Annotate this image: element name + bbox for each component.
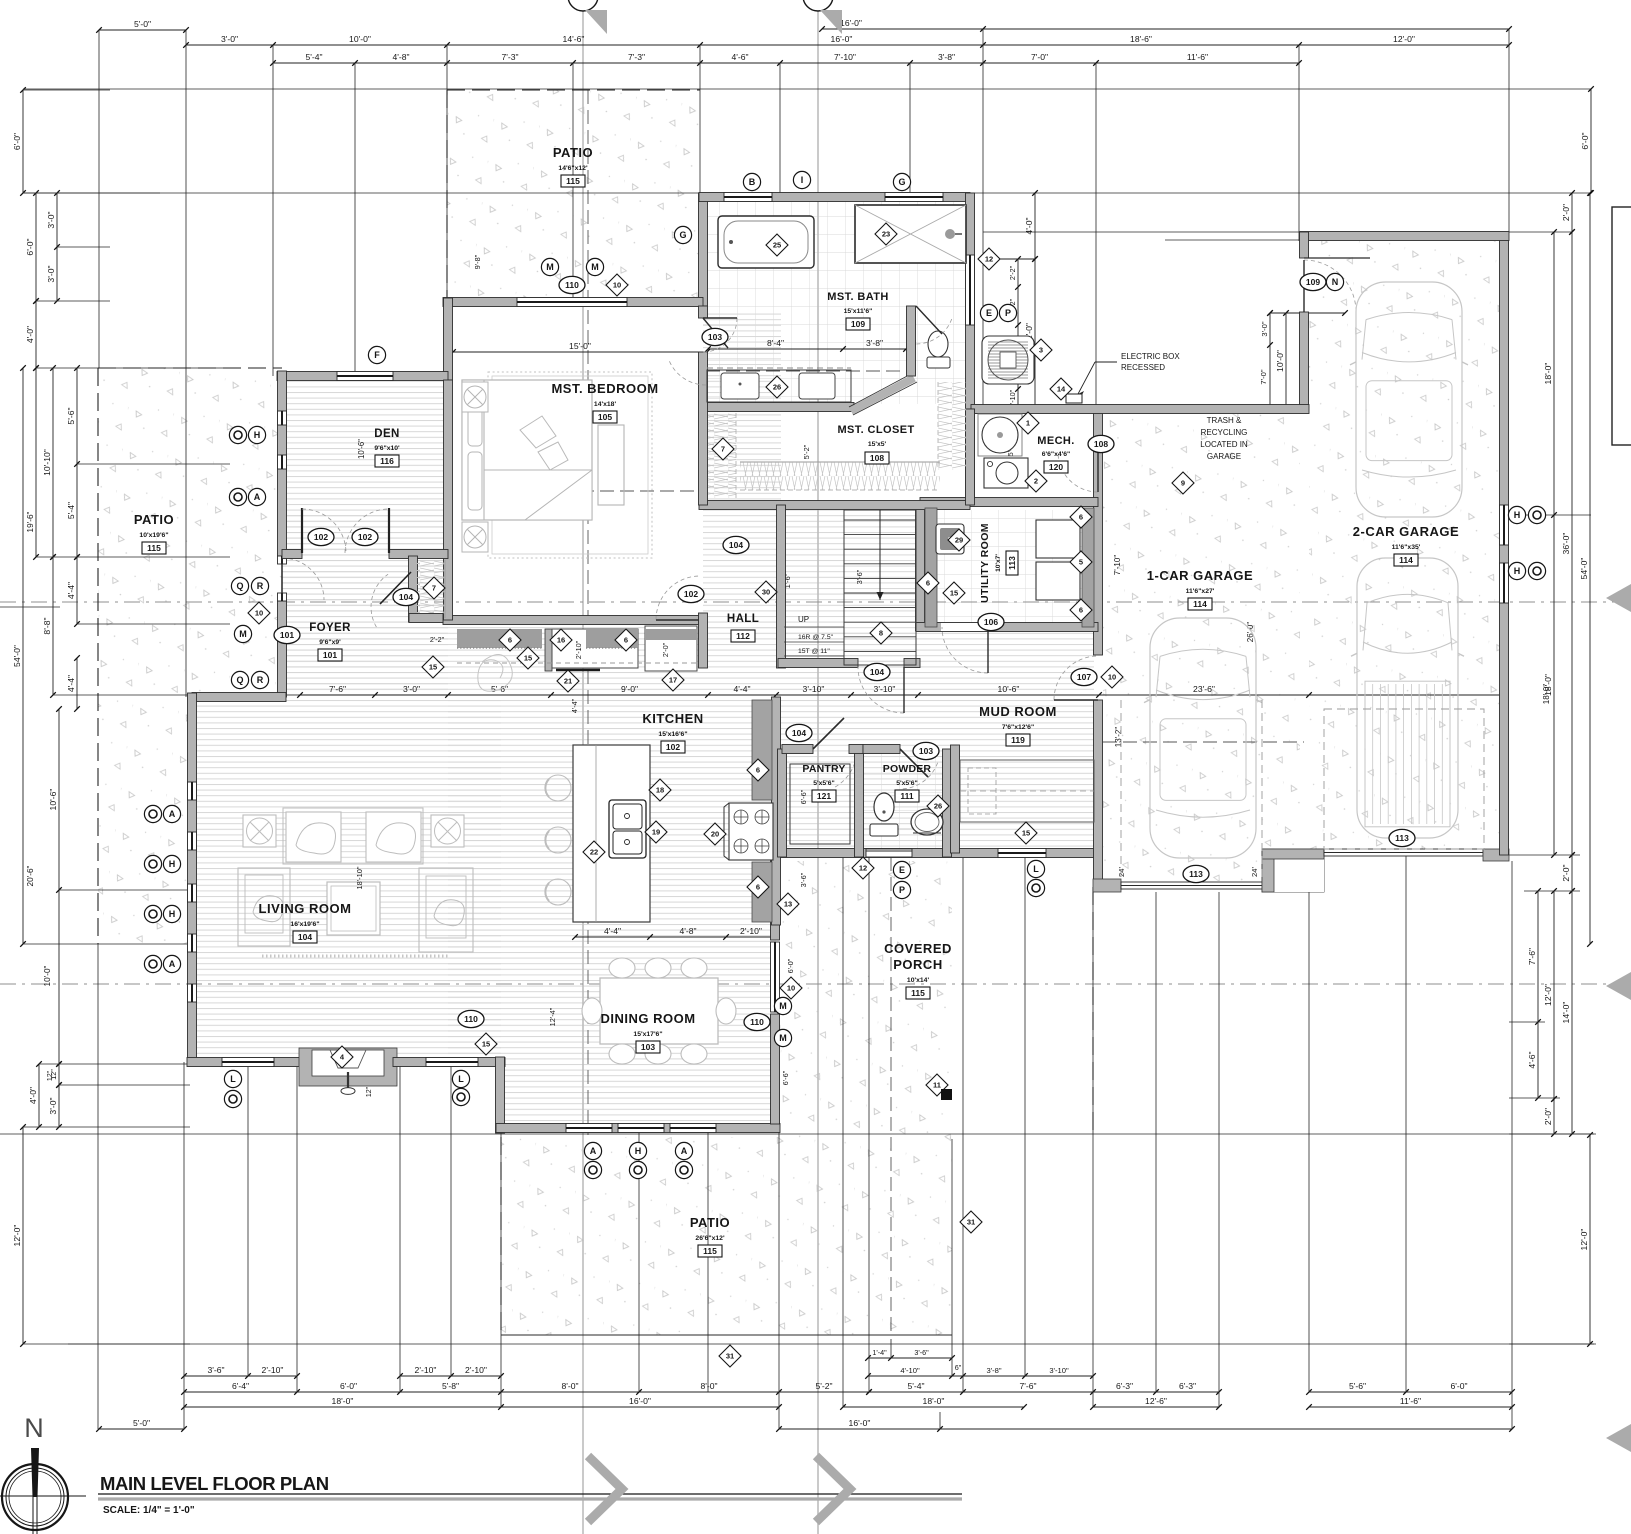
svg-text:26: 26 <box>773 383 781 392</box>
svg-text:A: A <box>254 492 261 502</box>
wall: bedroom south / kitchen north <box>443 616 703 625</box>
svg-text:104: 104 <box>399 592 413 602</box>
svg-text:3'-0": 3'-0" <box>48 1097 58 1114</box>
svg-text:11'6"x35': 11'6"x35' <box>1392 544 1421 551</box>
den floor <box>282 376 448 697</box>
garage 2 stipple <box>1309 241 1504 849</box>
svg-text:15: 15 <box>524 654 532 663</box>
svg-text:PATIO: PATIO <box>553 145 593 160</box>
bed <box>462 380 592 520</box>
svg-text:2'-10": 2'-10" <box>465 1365 487 1375</box>
grid bubbles top <box>568 0 598 11</box>
svg-text:M: M <box>779 1033 787 1043</box>
svg-text:6: 6 <box>926 579 930 588</box>
svg-text:4'-0": 4'-0" <box>28 1087 38 1104</box>
svg-text:2'-10": 2'-10" <box>262 1365 284 1375</box>
svg-text:A: A <box>681 1146 688 1156</box>
svg-text:4'-4": 4'-4" <box>66 675 76 692</box>
dashed centerline bedroom <box>500 490 707 492</box>
foyer plant scribble <box>478 654 512 691</box>
svg-text:8'-4": 8'-4" <box>767 338 784 348</box>
svg-text:G: G <box>679 230 686 240</box>
mech furnace <box>984 458 1028 488</box>
svg-text:GARAGE: GARAGE <box>1207 452 1241 461</box>
svg-text:3'-8": 3'-8" <box>938 52 955 62</box>
svg-text:H: H <box>1514 510 1521 520</box>
svg-text:102: 102 <box>314 532 328 542</box>
svg-text:14'-6": 14'-6" <box>563 34 585 44</box>
bottom extension lines <box>97 944 99 1429</box>
svg-text:14'6"x12': 14'6"x12' <box>558 165 588 172</box>
svg-text:15'x17'6": 15'x17'6" <box>633 1031 662 1038</box>
svg-text:104: 104 <box>792 728 806 738</box>
svg-text:F: F <box>374 350 380 360</box>
svg-text:2'-0": 2'-0" <box>1543 1108 1553 1125</box>
wall: dining south <box>496 1124 780 1133</box>
interior dim row y695 <box>300 694 1504 696</box>
right edge arrows <box>1606 584 1631 612</box>
svg-text:5'-4": 5'-4" <box>66 502 76 519</box>
living-dining strip <box>448 625 776 1062</box>
courtyard dims <box>1034 193 1036 409</box>
svg-text:6'-0": 6'-0" <box>1450 1381 1467 1391</box>
svg-text:7'-0": 7'-0" <box>1259 369 1268 384</box>
svg-text:6'-4": 6'-4" <box>232 1381 249 1391</box>
patio top stipple <box>447 90 700 297</box>
svg-text:3: 3 <box>1039 346 1043 355</box>
garage 1 stipple <box>1103 413 1300 881</box>
svg-text:10'x19'6": 10'x19'6" <box>139 532 168 539</box>
svg-text:5'-4": 5'-4" <box>305 52 322 62</box>
left extension lines <box>23 89 110 91</box>
svg-text:P: P <box>1005 308 1011 318</box>
shower <box>855 205 966 263</box>
svg-text:15: 15 <box>429 663 437 672</box>
mst bath tile <box>703 202 966 404</box>
svg-text:2'-10": 2'-10" <box>574 640 583 659</box>
wall: pantry west <box>778 749 787 857</box>
car garage1 suv <box>1150 618 1256 858</box>
svg-text:15T @ 11": 15T @ 11" <box>798 648 830 655</box>
wall: mst bath north <box>699 193 970 202</box>
svg-text:PORCH: PORCH <box>893 957 942 972</box>
svg-text:9'6"x9': 9'6"x9' <box>319 639 341 646</box>
svg-text:115: 115 <box>147 543 161 553</box>
svg-text:A: A <box>169 959 176 969</box>
wall: foyer jog <box>192 693 286 702</box>
svg-text:9: 9 <box>1181 479 1185 488</box>
svg-text:1-CAR GARAGE: 1-CAR GARAGE <box>1147 568 1253 583</box>
svg-text:16'x19'6": 16'x19'6" <box>290 921 319 928</box>
svg-text:26'-0": 26'-0" <box>1246 622 1255 643</box>
end tables <box>243 815 276 847</box>
mud hall floor <box>776 631 1094 853</box>
svg-text:RECYCLING: RECYCLING <box>1201 428 1248 437</box>
svg-text:P: P <box>899 885 905 895</box>
svg-text:LIVING ROOM: LIVING ROOM <box>259 901 352 916</box>
double window circles left <box>144 805 161 822</box>
svg-text:16'-0": 16'-0" <box>840 18 862 28</box>
mid chair left <box>238 868 290 946</box>
svg-text:19: 19 <box>652 828 660 837</box>
garage jamb dashed <box>1120 700 1122 880</box>
svg-text:114: 114 <box>1399 555 1413 565</box>
wall: garage west <box>1094 409 1103 655</box>
svg-text:121: 121 <box>817 791 831 801</box>
svg-text:26: 26 <box>934 802 942 811</box>
den south wall + double doors <box>282 550 302 559</box>
svg-text:H: H <box>169 859 176 869</box>
closet racks <box>708 413 736 498</box>
svg-text:6'-0": 6'-0" <box>340 1381 357 1391</box>
svg-text:7'-6": 7'-6" <box>1527 948 1537 965</box>
svg-text:4'-0": 4'-0" <box>1024 217 1034 234</box>
svg-text:108: 108 <box>870 453 884 463</box>
wall: den south <box>444 380 453 620</box>
svg-text:101: 101 <box>280 630 294 640</box>
svg-text:115: 115 <box>911 988 925 998</box>
svg-text:MST. BATH: MST. BATH <box>827 291 888 303</box>
svg-text:I: I <box>801 175 804 185</box>
wall: bedroom north <box>443 298 703 307</box>
svg-text:3'-6": 3'-6" <box>914 1348 929 1357</box>
island sink <box>609 800 646 858</box>
nightstands <box>462 382 488 412</box>
svg-text:4'-4": 4'-4" <box>570 698 579 713</box>
wall: bath/closet east <box>966 409 975 505</box>
svg-text:16'-0": 16'-0" <box>849 1418 871 1428</box>
dashed centerline bath <box>706 370 900 372</box>
svg-text:119: 119 <box>1011 735 1025 745</box>
kitchen bottom dim row <box>575 936 776 938</box>
svg-text:6'-0": 6'-0" <box>786 958 795 973</box>
wall: utility south <box>916 623 1098 632</box>
svg-text:114: 114 <box>1193 599 1207 609</box>
svg-text:M: M <box>239 629 247 639</box>
svg-text:8'-0": 8'-0" <box>700 1381 717 1391</box>
svg-text:2: 2 <box>1034 477 1038 486</box>
svg-text:E: E <box>986 308 992 318</box>
patio bottom circle pairs <box>584 1142 601 1159</box>
svg-text:25: 25 <box>773 241 781 250</box>
svg-text:MAIN LEVEL FLOOR PLAN: MAIN LEVEL FLOOR PLAN <box>100 1473 329 1494</box>
wall: bedroom east <box>699 306 708 318</box>
wall: kitchen fridge side <box>699 613 708 668</box>
svg-text:6: 6 <box>1079 513 1083 522</box>
wall: mech west <box>966 409 975 502</box>
svg-text:8'-8": 8'-8" <box>42 617 52 634</box>
wall: living south <box>187 1058 303 1067</box>
svg-text:6: 6 <box>624 636 628 645</box>
svg-text:PATIO: PATIO <box>690 1215 730 1230</box>
svg-text:109: 109 <box>1306 277 1320 287</box>
svg-text:104: 104 <box>298 932 312 942</box>
porch door <box>866 849 912 857</box>
svg-text:109: 109 <box>851 319 865 329</box>
svg-text:10: 10 <box>613 281 621 290</box>
wall: pantry/powder divider <box>855 749 864 857</box>
svg-text:22: 22 <box>590 848 598 857</box>
svg-text:23: 23 <box>882 230 890 239</box>
svg-text:ELECTRIC BOX: ELECTRIC BOX <box>1121 352 1180 361</box>
svg-text:15: 15 <box>482 1040 490 1049</box>
wall: mst bath west <box>699 193 708 306</box>
centerline horizontal lower <box>0 983 1631 985</box>
tub <box>718 216 814 268</box>
svg-text:12": 12" <box>366 1086 373 1097</box>
vanity counter <box>707 370 851 402</box>
svg-text:115: 115 <box>703 1246 717 1256</box>
svg-text:3'-0": 3'-0" <box>403 684 420 694</box>
svg-text:10'-0": 10'-0" <box>349 34 371 44</box>
front door opening <box>278 601 287 697</box>
svg-text:7'6"x12'6": 7'6"x12'6" <box>1002 724 1034 731</box>
range <box>729 803 773 860</box>
svg-text:115: 115 <box>566 176 580 186</box>
svg-text:6: 6 <box>756 766 760 775</box>
svg-text:FOYER: FOYER <box>309 622 351 634</box>
svg-text:DINING ROOM: DINING ROOM <box>600 1011 695 1026</box>
svg-text:6: 6 <box>1079 606 1083 615</box>
svg-text:E: E <box>899 865 905 875</box>
svg-text:G: G <box>898 177 905 187</box>
wall: powder north <box>863 745 900 754</box>
foyer closet <box>409 556 418 622</box>
svg-text:COVERED: COVERED <box>884 941 952 956</box>
svg-text:103: 103 <box>641 1042 655 1052</box>
svg-text:Q: Q <box>236 675 243 685</box>
svg-text:H: H <box>1514 566 1521 576</box>
wall: garage east <box>1500 232 1509 855</box>
top extension lines <box>98 30 100 368</box>
svg-text:4'-8": 4'-8" <box>679 926 696 936</box>
svg-text:4'-10": 4'-10" <box>900 1366 920 1375</box>
bench <box>598 425 624 505</box>
svg-text:11'-6": 11'-6" <box>1187 52 1208 62</box>
svg-text:5: 5 <box>1079 558 1083 567</box>
bedroom rug <box>488 372 652 558</box>
svg-text:31: 31 <box>726 1352 734 1361</box>
svg-text:3'-6": 3'-6" <box>799 872 808 887</box>
svg-text:N: N <box>24 1413 44 1443</box>
svg-text:2'-0": 2'-0" <box>661 642 670 657</box>
svg-text:6'-6": 6'-6" <box>781 1070 790 1085</box>
svg-text:15'-0": 15'-0" <box>569 341 591 351</box>
svg-text:113: 113 <box>1007 556 1017 570</box>
bath toilet <box>928 331 948 357</box>
garage door 2 <box>1324 849 1483 856</box>
svg-text:HALL: HALL <box>727 613 759 625</box>
svg-text:9'6"x10': 9'6"x10' <box>374 445 400 452</box>
svg-text:23'-6": 23'-6" <box>1193 684 1215 694</box>
svg-text:7: 7 <box>432 584 436 593</box>
north arrow <box>2 1464 68 1530</box>
svg-text:10'-6": 10'-6" <box>357 439 366 459</box>
wall: pantry north <box>782 745 813 754</box>
svg-text:3'-6": 3'-6" <box>855 569 864 584</box>
svg-text:L: L <box>230 1074 236 1084</box>
wall: den north <box>277 372 448 381</box>
svg-text:6: 6 <box>756 883 760 892</box>
svg-text:12'-0": 12'-0" <box>1393 34 1415 44</box>
svg-text:120: 120 <box>1049 462 1063 472</box>
svg-text:111: 111 <box>900 791 914 801</box>
svg-text:16'-0": 16'-0" <box>629 1396 651 1406</box>
svg-text:5'-6": 5'-6" <box>66 407 76 424</box>
svg-text:N: N <box>1332 277 1339 287</box>
svg-text:5'-4": 5'-4" <box>907 1381 924 1391</box>
svg-text:4'-4": 4'-4" <box>66 582 76 599</box>
svg-text:104: 104 <box>870 667 884 677</box>
svg-text:2'-0": 2'-0" <box>1561 864 1571 881</box>
svg-text:10'x14': 10'x14' <box>907 977 930 984</box>
covered porch stipple <box>779 861 952 1139</box>
svg-text:DEN: DEN <box>374 428 399 440</box>
truck dashed stall <box>1324 709 1484 849</box>
svg-text:8'-0": 8'-0" <box>561 1381 578 1391</box>
svg-text:102: 102 <box>666 742 680 752</box>
dashed centerline garage1 <box>1103 741 1304 743</box>
svg-text:5'-0": 5'-0" <box>134 19 151 29</box>
svg-text:104: 104 <box>729 540 743 550</box>
svg-text:29: 29 <box>955 536 963 545</box>
mech water heater <box>978 414 1022 456</box>
svg-text:10: 10 <box>1108 673 1116 682</box>
svg-text:5'-2": 5'-2" <box>815 1381 832 1391</box>
svg-text:18'-0": 18'-0" <box>1542 684 1551 705</box>
centerline horizontal upper <box>0 601 1631 603</box>
svg-text:B: B <box>749 177 756 187</box>
svg-text:4'-4": 4'-4" <box>733 684 750 694</box>
svg-text:108: 108 <box>1094 439 1108 449</box>
svg-text:107: 107 <box>1077 672 1091 682</box>
svg-text:10'-6": 10'-6" <box>48 789 58 811</box>
window letter circles <box>743 173 760 190</box>
svg-text:UP: UP <box>798 615 809 624</box>
svg-text:12'-0": 12'-0" <box>12 1225 22 1247</box>
section ref line B vertical <box>817 0 819 1534</box>
top dimension rows <box>99 29 186 31</box>
utility cabinets dark <box>1082 508 1094 627</box>
svg-text:H: H <box>254 430 261 440</box>
svg-text:26'6"x12': 26'6"x12' <box>695 1235 725 1242</box>
electric panel fixture <box>982 336 1034 384</box>
svg-text:2'-10": 2'-10" <box>415 1365 437 1375</box>
wall: bedroom west upper <box>444 298 453 380</box>
svg-text:4'-8": 4'-8" <box>392 52 409 62</box>
wall: mech south / utility north <box>920 498 1098 507</box>
svg-text:10'-10": 10'-10" <box>42 449 52 476</box>
svg-text:PATIO: PATIO <box>134 512 174 527</box>
dashed centerline porch <box>890 857 892 1335</box>
bottom section chevrons <box>588 1456 622 1522</box>
svg-text:19'-6": 19'-6" <box>26 511 35 532</box>
svg-text:12'-6": 12'-6" <box>1145 1396 1167 1406</box>
svg-text:PANTRY: PANTRY <box>802 763 845 775</box>
wall: living south east seg <box>393 1058 505 1067</box>
garage door 1 <box>1121 882 1262 889</box>
fireplace bump <box>299 1048 397 1086</box>
svg-text:POWDER: POWDER <box>883 763 932 775</box>
car garage2 truck <box>1357 558 1458 838</box>
svg-text:2'-0": 2'-0" <box>1561 204 1571 221</box>
wall: south of powder block <box>771 849 1097 858</box>
svg-text:3'-0": 3'-0" <box>1260 321 1269 336</box>
right extension lines <box>1509 854 1580 856</box>
svg-text:102: 102 <box>358 532 372 542</box>
svg-text:9'-0": 9'-0" <box>621 684 638 694</box>
svg-text:10'-0": 10'-0" <box>1275 350 1285 372</box>
svg-text:12: 12 <box>985 255 993 264</box>
svg-text:103: 103 <box>708 332 722 342</box>
svg-text:Q: Q <box>236 581 243 591</box>
mid chair right <box>419 868 473 952</box>
mud bench <box>960 760 1094 822</box>
svg-text:5'x5'6": 5'x5'6" <box>813 780 835 787</box>
svg-text:7'-3": 7'-3" <box>628 52 645 62</box>
svg-text:5'-2": 5'-2" <box>802 444 811 459</box>
toilet nook tile <box>911 306 966 402</box>
svg-text:2-CAR GARAGE: 2-CAR GARAGE <box>1353 524 1459 539</box>
svg-text:3'-10": 3'-10" <box>874 684 896 694</box>
svg-text:5'-8": 5'-8" <box>442 1381 459 1391</box>
svg-text:A: A <box>169 809 176 819</box>
svg-text:6'6"x4'6": 6'6"x4'6" <box>1042 451 1071 458</box>
svg-text:13'-2": 13'-2" <box>1114 727 1123 748</box>
svg-text:MUD ROOM: MUD ROOM <box>979 704 1057 719</box>
pillows deco <box>520 416 556 448</box>
wall: courtyard south long <box>971 405 1309 414</box>
svg-text:7: 7 <box>721 445 725 454</box>
svg-text:3'-0": 3'-0" <box>221 34 238 44</box>
kitchen-hall floor <box>448 305 478 307</box>
svg-text:MST. CLOSET: MST. CLOSET <box>837 424 914 436</box>
svg-text:3'-0": 3'-0" <box>46 211 56 228</box>
svg-text:14'-0": 14'-0" <box>1561 1002 1571 1024</box>
right edge detail box <box>1612 207 1631 445</box>
wall: utility west <box>916 502 925 631</box>
svg-text:36'-0": 36'-0" <box>1561 533 1571 555</box>
svg-text:M: M <box>779 1001 787 1011</box>
svg-text:15'x16'6": 15'x16'6" <box>658 731 687 738</box>
svg-text:3'-8": 3'-8" <box>866 338 883 348</box>
washer dryer <box>1036 520 1080 558</box>
bedroom dim row <box>453 351 707 353</box>
svg-text:116: 116 <box>380 456 394 466</box>
wall: dining east / porch west <box>771 1014 780 1124</box>
bottom dimension rows <box>868 1357 952 1359</box>
svg-text:110: 110 <box>750 1017 764 1027</box>
right dimension columns <box>1590 89 1592 193</box>
pantry shelves <box>790 764 850 844</box>
svg-text:54'-0": 54'-0" <box>12 645 22 667</box>
svg-text:4'-0": 4'-0" <box>25 326 35 343</box>
wall: powder east <box>943 749 952 857</box>
svg-text:14'x18': 14'x18' <box>594 401 617 408</box>
window circle pairs right <box>1508 506 1525 523</box>
svg-text:H: H <box>635 1146 642 1156</box>
stairs <box>844 510 916 665</box>
svg-text:MST. BEDROOM: MST. BEDROOM <box>551 381 658 396</box>
door ovals <box>559 276 585 293</box>
svg-text:R: R <box>257 675 264 685</box>
svg-text:12'-0": 12'-0" <box>1543 984 1553 1006</box>
svg-text:9'-8": 9'-8" <box>473 254 482 269</box>
svg-text:3'-8": 3'-8" <box>986 1366 1001 1375</box>
wall: stair/hall south <box>778 659 858 668</box>
svg-text:8: 8 <box>879 629 883 638</box>
wall: mst bath east <box>966 193 975 409</box>
